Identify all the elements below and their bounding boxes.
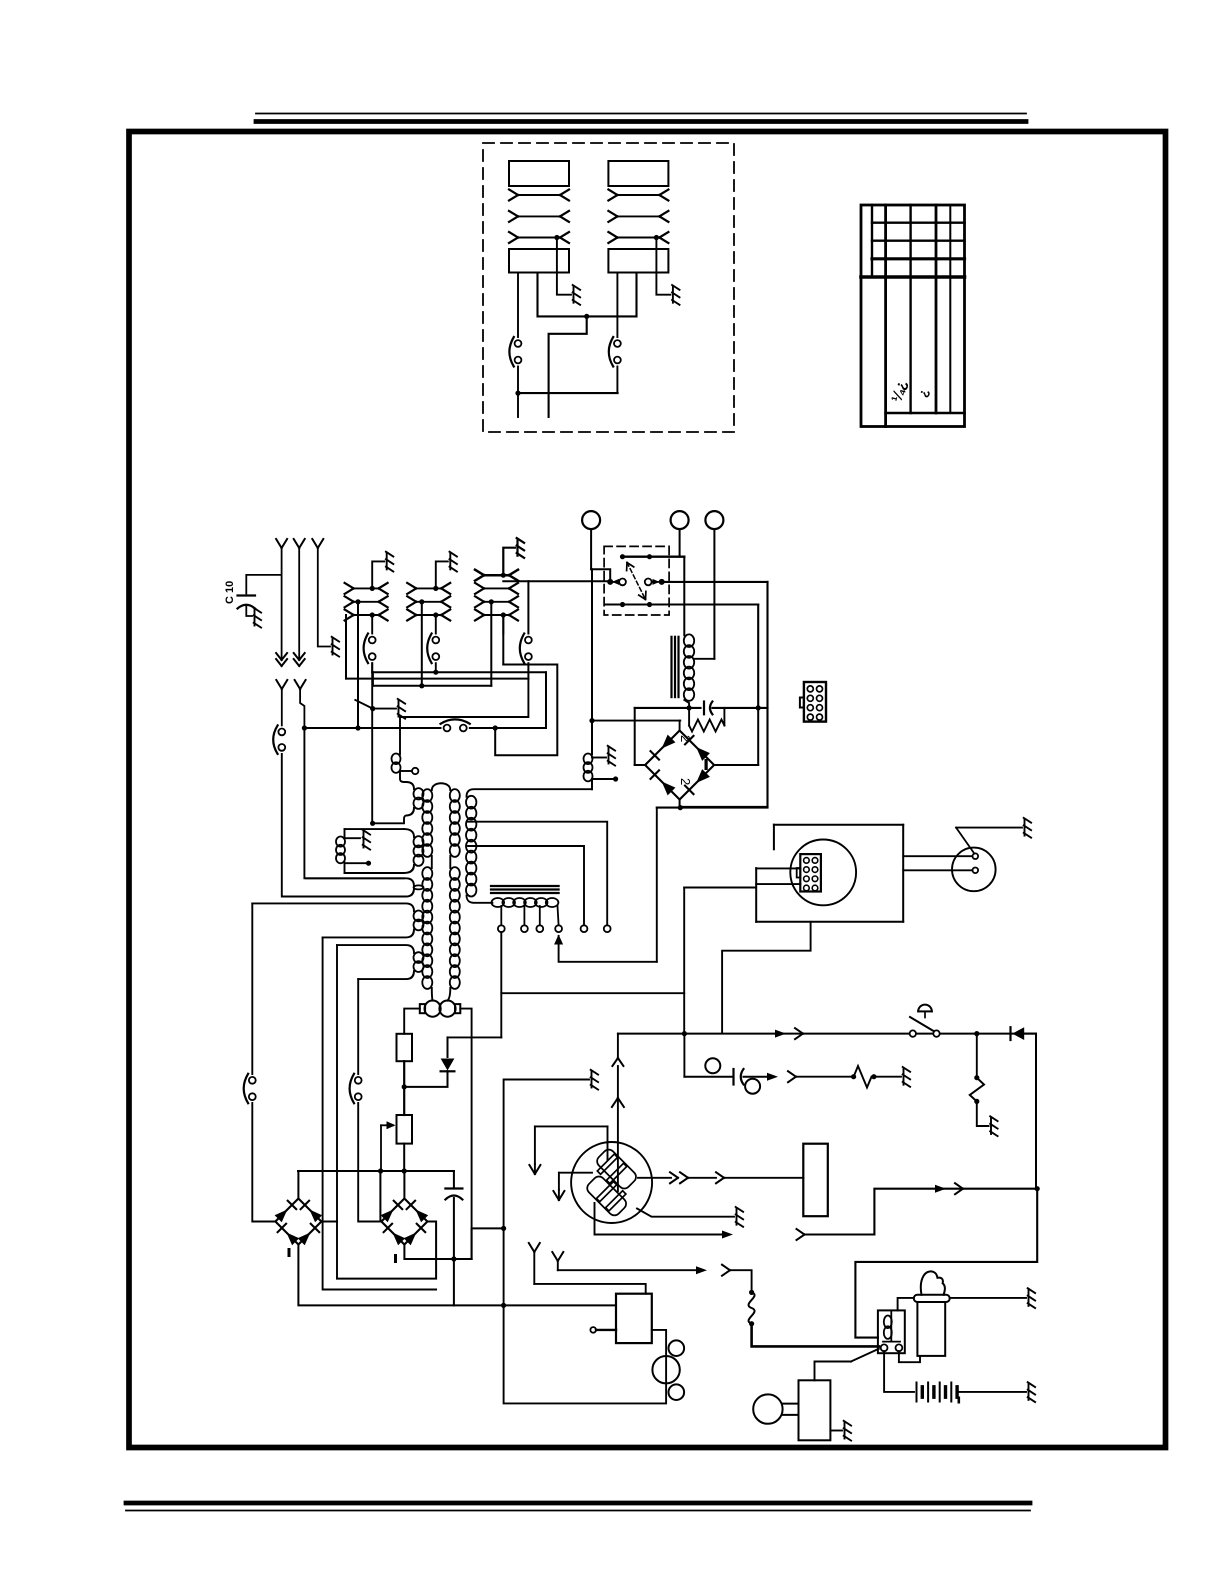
svg-text:C 10: C 10 — [224, 581, 236, 604]
svg-text:2: 2 — [678, 735, 693, 742]
svg-text:2: 2 — [678, 778, 693, 785]
